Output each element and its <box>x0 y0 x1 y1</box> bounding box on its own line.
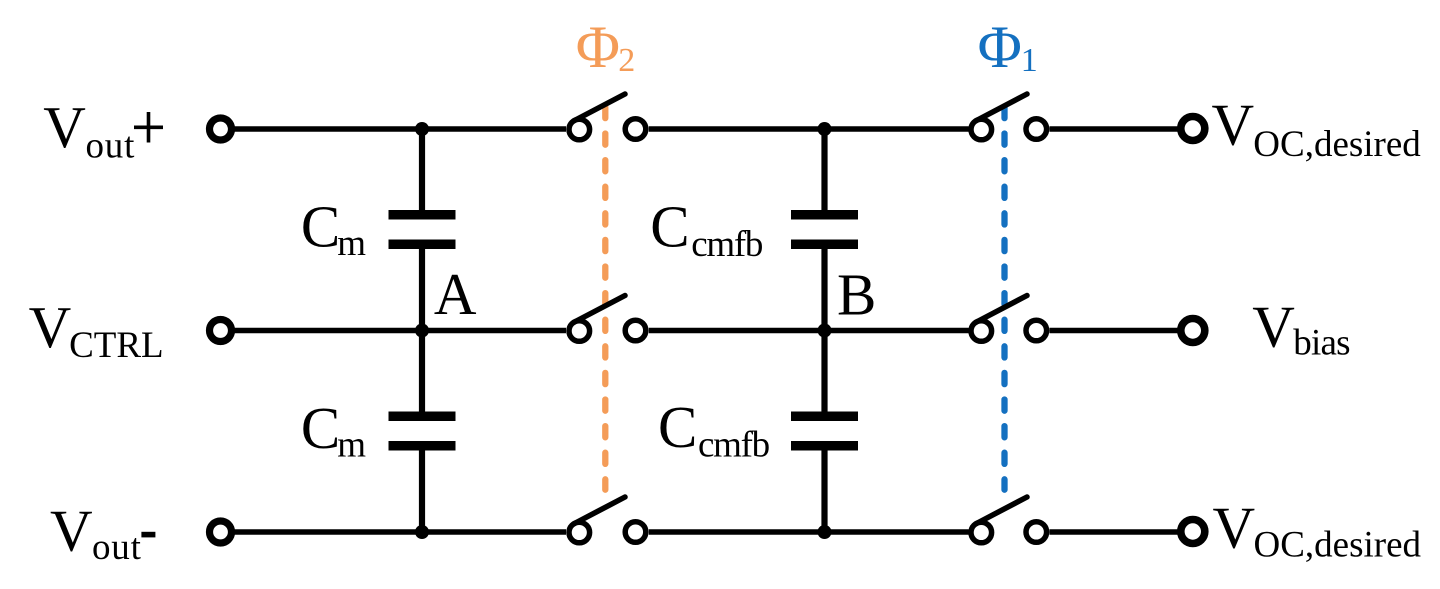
wire vertical, Ccmfb lower plate to Vout- row <box>821 450 827 533</box>
wire vertical, Cm lower plate to Vout- row <box>419 450 425 533</box>
wire Vout+ row, terminal to switch S1 <box>233 126 566 132</box>
wire vertical, Vout+ row to Ccmfb upper plate <box>821 129 827 211</box>
junction dot node B <box>818 324 832 338</box>
wire Vout- row, switch S3 to switch S6 <box>649 529 969 535</box>
label phi2 <box>576 14 635 81</box>
label VOC,desired bottom <box>1213 495 1422 566</box>
terminal VCTRL <box>210 320 232 342</box>
capacitor Cm lower <box>389 412 456 451</box>
svg-text:V: V <box>1252 294 1295 360</box>
junction dot Vout- row at Ccmfb branch <box>818 525 832 539</box>
switch S6 (phi1, Vout- row) <box>971 497 1047 543</box>
label VCTRL <box>29 294 164 366</box>
svg-text:m: m <box>337 223 366 264</box>
wire Vout+ row, switch S4 to right terminal <box>1050 126 1179 132</box>
clock line phi2 (orange dashed) <box>602 107 608 490</box>
junction dot Vout+ row at Ccmfb branch <box>818 122 832 136</box>
junction dot node A <box>415 324 429 338</box>
label VOC,desired top <box>1212 92 1422 166</box>
switch S5 (phi1, VCTRL row) <box>971 296 1047 342</box>
label Vout+ <box>43 94 163 167</box>
label Ccmfb lower <box>658 394 770 466</box>
wire vertical, Vout+ row to Cm upper plate <box>419 129 425 211</box>
svg-text:C: C <box>658 394 697 460</box>
svg-text:Φ: Φ <box>576 14 620 81</box>
switch S2 (phi2, VCTRL row) <box>569 296 646 342</box>
capacitor Ccmfb lower <box>791 412 858 451</box>
svg-text:m: m <box>337 425 366 466</box>
svg-text:V: V <box>1213 495 1256 561</box>
wire vertical, Ccmfb upper to node B to Ccmfb lower <box>821 248 827 412</box>
capacitor Cm upper <box>389 210 456 249</box>
terminal Vout+ <box>210 118 232 140</box>
label Ccmfb upper <box>650 194 763 266</box>
wire Vout- row, switch S6 to right terminal <box>1050 529 1179 535</box>
svg-text:CTRL: CTRL <box>69 325 164 366</box>
label Cm lower <box>301 395 366 466</box>
wire Vout- row, terminal to switch S3 <box>233 529 566 535</box>
svg-text:V: V <box>29 294 72 360</box>
wire VCTRL row, switch S2 to switch S5 <box>649 328 969 334</box>
terminal Vbias <box>1181 319 1205 343</box>
wire VCTRL row, switch S5 to right terminal <box>1050 328 1179 334</box>
switch S1 (phi2, Vout+ row) <box>569 94 646 140</box>
svg-text:1: 1 <box>1021 42 1038 79</box>
svg-text:A: A <box>434 261 477 327</box>
label Cm upper <box>301 194 366 265</box>
wire vertical, Cm upper to node A to Cm lower <box>419 248 425 412</box>
terminal Vout- <box>210 521 232 543</box>
svg-text:V: V <box>1212 92 1255 158</box>
svg-text:Φ: Φ <box>978 14 1022 81</box>
svg-text:cmfb: cmfb <box>698 425 770 466</box>
label phi1 <box>978 14 1038 81</box>
wire Vout+ row, switch S1 to switch S4 <box>649 126 969 132</box>
clock line phi1 (blue dashed) <box>1001 107 1007 490</box>
svg-text:B: B <box>837 262 876 328</box>
capacitor Ccmfb upper <box>791 210 858 249</box>
label Vout- <box>50 498 155 569</box>
svg-text:C: C <box>301 395 340 461</box>
svg-text:C: C <box>650 194 689 260</box>
svg-text:V: V <box>43 94 86 160</box>
svg-text:cmfb: cmfb <box>691 224 763 265</box>
terminal VOC,desired top <box>1181 117 1205 141</box>
svg-text:OC,desired: OC,desired <box>1254 525 1422 566</box>
junction dot Vout- row at Cm branch <box>415 525 429 539</box>
switch S4 (phi1, Vout+ row) <box>971 94 1047 140</box>
junction dot Vout+ row at Cm branch <box>415 122 429 136</box>
svg-text:bias: bias <box>1293 323 1350 364</box>
svg-text:out: out <box>92 527 142 568</box>
svg-text:2: 2 <box>618 42 635 79</box>
svg-text:out: out <box>86 126 136 167</box>
terminal VOC,desired bottom <box>1181 520 1205 544</box>
svg-text:C: C <box>301 194 340 260</box>
label Vbias <box>1252 294 1350 364</box>
wire VCTRL row, terminal to switch S2 <box>233 328 566 334</box>
switch S3 (phi2, Vout- row) <box>569 497 646 543</box>
svg-text:OC,desired: OC,desired <box>1253 124 1421 165</box>
svg-text:V: V <box>50 498 93 564</box>
